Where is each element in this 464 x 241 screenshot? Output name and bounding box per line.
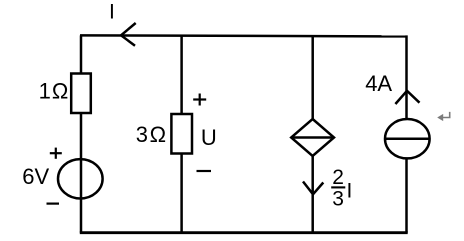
resistor R2 (3 ohm) body xyxy=(171,114,192,154)
polarity plus of U xyxy=(193,94,206,106)
current arrow for I (left-pointing chevron on top wire) xyxy=(121,23,136,46)
svg-text:6V: 6V xyxy=(22,164,49,189)
wire: branch 3 from top wire down to dependent source xyxy=(311,35,314,120)
arrow: downward chevron for controlled current xyxy=(303,182,323,195)
polarity plus of V1 xyxy=(50,148,62,159)
value label 2/3 I (fraction) xyxy=(331,166,352,210)
polarity minus of U xyxy=(197,170,212,172)
wire bottom node: bottom horizontal bus xyxy=(80,231,408,234)
wire: branch 3 from dependent source down to bottom wire xyxy=(311,156,314,233)
wire top node: top horizontal bus from left corner to right corner xyxy=(80,35,407,36)
polarity minus of V1 xyxy=(47,203,60,205)
svg-text:3: 3 xyxy=(332,188,344,211)
wire: branch 4 from current source down to bottom wire xyxy=(405,158,408,232)
svg-text:4A: 4A xyxy=(365,71,392,96)
svg-text:1Ω: 1Ω xyxy=(39,78,70,103)
current source I1 (4A) circle with bar xyxy=(385,119,430,158)
svg-text:3Ω: 3Ω xyxy=(136,122,168,147)
wire: branch 2 from top wire down to resistor R2 xyxy=(180,35,183,115)
svg-text:2: 2 xyxy=(332,166,344,189)
paragraph return mark (gray) xyxy=(437,112,450,121)
wire: branch 4 from top wire down to current source arrow xyxy=(405,35,408,120)
wire: branch 2 from resistor R2 down to bottom wire xyxy=(180,154,183,233)
wire: left branch from top wire down to resistor R1 xyxy=(80,35,83,74)
arrow: upward chevron of current source I1 xyxy=(395,91,419,104)
voltage source V1 (6V) circle xyxy=(58,159,103,198)
wire: left branch from resistor R1 down through source V1 to bottom wire xyxy=(80,113,83,233)
resistor R1 (1 ohm) body xyxy=(71,74,91,114)
svg-text:U: U xyxy=(201,125,217,150)
svg-text:I: I xyxy=(109,0,115,23)
svg-text:I: I xyxy=(347,179,353,202)
dependent current source (diamond) xyxy=(291,119,334,156)
